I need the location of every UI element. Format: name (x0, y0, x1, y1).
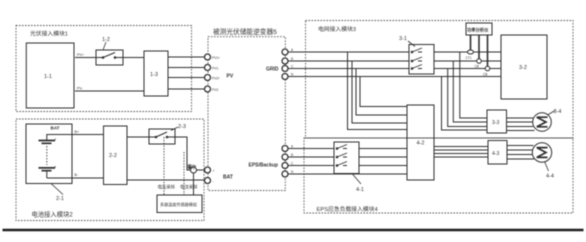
GRID terminal N label (291, 73, 294, 77)
EPS wire C to 4-1 (288, 165, 407, 167)
switch 4-1 (334, 142, 359, 174)
PV terminal 1 label (212, 56, 220, 60)
label BAT bold (223, 175, 233, 181)
wires 4-3 to motor 4-4 (507, 146, 534, 160)
box 3-3 (487, 110, 507, 133)
grid simulator box 3-2 (501, 35, 547, 99)
battery cell 2 (39, 168, 56, 178)
multi-channel temperature sensor module box (157, 195, 202, 213)
sensor module text (160, 201, 197, 207)
svg-text:1-3: 1-3 (150, 72, 158, 78)
svg-text:CB: CB (475, 65, 479, 69)
svg-text:C: C (291, 65, 294, 69)
module 2 label (32, 210, 74, 219)
voltage sampling dashed taps (164, 137, 184, 195)
taps from bus down to 3-3 (442, 52, 488, 130)
wire 1-2 to 1-3 (123, 57, 144, 59)
module 3 label (318, 25, 356, 33)
meter probe label A (466, 56, 472, 60)
svg-text:BAT: BAT (223, 175, 233, 181)
svg-text:霍尔: 霍尔 (188, 163, 197, 170)
svg-text:B+: B+ (75, 130, 80, 134)
label 4-1 with leader (352, 174, 361, 185)
label PV bold (227, 74, 234, 80)
label 电流采样 (180, 184, 198, 191)
label 1-3 (150, 72, 158, 78)
wires 4-2 to 4-3 (434, 147, 488, 158)
svg-text:4-1: 4-1 (356, 187, 364, 193)
grid bus wire A (288, 51, 501, 53)
label 2-2 (109, 153, 117, 159)
label PV- (77, 87, 84, 91)
svg-text:PV: PV (227, 74, 234, 80)
inverter dashed box 被测光伏储能逆变器5 (208, 37, 285, 191)
meter probe label C (483, 73, 487, 77)
switch 2-3 (149, 129, 175, 144)
svg-text:EPS应急负载接入模块4: EPS应急负载接入模块4 (317, 205, 379, 213)
EPS wire N (288, 173, 407, 175)
svg-text:4-4: 4-4 (546, 174, 554, 180)
EPS terminal B (282, 154, 288, 160)
label EPS/Backup (249, 163, 278, 169)
EPS terminal C label (291, 162, 294, 166)
hall sensor drop to sensor module (193, 173, 195, 195)
svg-text:3-2: 3-2 (519, 65, 527, 71)
label 3-1 with leader (408, 41, 415, 47)
svg-text:电网接入模块3: 电网接入模块3 (318, 25, 356, 33)
grid taps down to 4-2 (348, 52, 408, 130)
svg-text:2-3: 2-3 (178, 124, 186, 130)
label 电压采样 (158, 184, 176, 191)
svg-text:3-4: 3-4 (554, 109, 562, 115)
switch 1-2 (96, 50, 123, 65)
svg-text:B-: B- (75, 173, 79, 177)
grid bus wire B (288, 60, 501, 62)
svg-text:电流采样: 电流采样 (180, 184, 198, 191)
svg-text:A: A (291, 48, 294, 52)
wire 2-3 to BAT+ terminal (175, 137, 205, 170)
svg-text:+: + (213, 169, 215, 173)
GRID terminal B (282, 58, 288, 64)
hall sensor junction (191, 167, 197, 173)
motor load 3-4 (533, 113, 552, 132)
PV terminal 4 (205, 86, 211, 92)
svg-text:PV+: PV+ (77, 53, 84, 57)
svg-text:A: A (291, 145, 294, 149)
svg-text:C: C (291, 162, 294, 166)
hall sensor label (188, 163, 197, 170)
svg-text:2-2: 2-2 (109, 153, 117, 159)
label 4-4 with leader (545, 162, 549, 172)
battery cell 1 (39, 134, 56, 143)
module 3 dashed box 电网接入模块3 (306, 21, 574, 139)
svg-text:CB: CB (483, 73, 487, 77)
EPS terminal N label (291, 170, 294, 174)
label BAT (51, 126, 60, 131)
motor load 4-4 (532, 143, 551, 162)
EPS terminal A label (291, 145, 294, 149)
label 3-4 with leader (548, 111, 556, 116)
wires 1-3 to PV terminals (168, 57, 205, 89)
wires 3-3 to motor 3-4 (507, 118, 535, 131)
GRID terminal A (282, 49, 288, 55)
grid bus wire N (288, 76, 501, 78)
label 1-2 with leader (103, 42, 106, 50)
module 4 dashed box EPS应急负载接入模块4 (304, 138, 573, 213)
meter probe line C (485, 35, 490, 71)
svg-text:B: B (291, 153, 293, 157)
svg-text:功率分析仪: 功率分析仪 (467, 27, 489, 34)
svg-text:-: - (213, 180, 215, 184)
EPS terminal N (282, 171, 288, 177)
label PV+ (77, 53, 84, 57)
bottom page rule (3, 229, 584, 232)
svg-text:+: + (54, 165, 57, 170)
label 4-3 (492, 151, 499, 157)
box 1-3 (144, 51, 168, 96)
battery cell 1 plus mark (54, 137, 57, 142)
svg-text:4-3: 4-3 (492, 151, 499, 157)
dashed link between cells (46, 146, 48, 165)
grid bus wire C (288, 68, 501, 70)
module 1 dashed box 光伏接入模块1 (16, 26, 192, 112)
label GRID bold (266, 67, 279, 73)
GRID terminal C label (291, 65, 294, 69)
PV terminal 2 (205, 65, 211, 71)
wire PV- from 1-1 to 1-3 (75, 90, 144, 92)
svg-text:GRID: GRID (266, 67, 279, 73)
module 1 label (30, 30, 68, 38)
meter probe line A (468, 35, 474, 54)
svg-text:4-2: 4-2 (417, 141, 425, 147)
label 3-2 (519, 65, 527, 71)
svg-text:多路温度传感器模组: 多路温度传感器模组 (160, 201, 197, 207)
label 1-1 (44, 74, 52, 80)
BAT+ terminal (205, 167, 211, 173)
label B+ (75, 130, 80, 134)
svg-text:电压采样: 电压采样 (158, 184, 176, 191)
svg-text:电池接入模块2: 电池接入模块2 (32, 210, 74, 219)
label 2-1 with leader (51, 184, 63, 195)
BAT- terminal (205, 178, 211, 184)
EPS wire A to 4-1 (288, 148, 407, 150)
wire B- BAT to 2-2 (72, 177, 104, 179)
wire 2-2 to BAT- terminal (127, 179, 205, 181)
svg-text:PV2-: PV2- (212, 88, 219, 92)
wire B+ BAT to 2-2 (72, 134, 104, 136)
meter probe label B (475, 65, 479, 69)
BAT+ terminal label (213, 169, 215, 173)
svg-text:BAT: BAT (51, 126, 60, 131)
svg-text:CT1: CT1 (466, 56, 472, 60)
PV terminal 3 label (212, 77, 220, 81)
battery cell 2 plus mark (54, 165, 57, 170)
box 1-1 PV simulator (26, 43, 74, 108)
svg-text:1-1: 1-1 (44, 74, 52, 80)
svg-text:光伏接入模块1: 光伏接入模块1 (30, 30, 68, 38)
box 2-2 (104, 126, 128, 185)
svg-text:3-3: 3-3 (492, 120, 499, 126)
PV terminal 4 label (212, 88, 219, 92)
GRID terminal N (282, 74, 288, 80)
svg-text:B: B (291, 57, 293, 61)
module 4 label (317, 205, 379, 213)
GRID terminal B label (291, 57, 293, 61)
svg-text:PV2+: PV2+ (212, 77, 220, 81)
svg-text:PV-: PV- (77, 87, 84, 91)
EPS terminal A (282, 146, 288, 152)
svg-text:N: N (291, 73, 294, 77)
svg-text:1-2: 1-2 (102, 37, 110, 43)
power meter text (467, 27, 489, 34)
svg-text:EPS/Backup: EPS/Backup (249, 163, 278, 169)
EPS wire B to 4-1 (288, 156, 407, 158)
inverter label (213, 27, 277, 36)
meter probe line B (477, 35, 482, 63)
module 2 dashed box 电池接入模块2 (16, 119, 204, 221)
svg-text:PV1-: PV1- (212, 67, 219, 71)
transfer switch box 4-2 (407, 105, 434, 180)
svg-text:3-1: 3-1 (399, 36, 407, 42)
PV terminal 3 (205, 75, 211, 81)
battery box BAT 2-1 (26, 124, 72, 184)
label 2-3 with leader (171, 127, 178, 131)
GRID terminal C (282, 66, 288, 72)
PV terminal 2 label (212, 67, 219, 71)
internal wires to box edge (47, 135, 72, 179)
wire 2-2 to 2-3 (127, 136, 149, 138)
EPS terminal B label (291, 153, 293, 157)
label B- (75, 173, 79, 177)
svg-text:+: + (54, 137, 57, 142)
wire PV+ from 1-1 to 1-2 (75, 57, 96, 59)
EPS terminal C (282, 163, 288, 169)
svg-text:N: N (291, 170, 294, 174)
PV terminal 1 (205, 54, 211, 60)
svg-text:2-1: 2-1 (56, 196, 64, 202)
BAT- terminal label (213, 180, 215, 184)
GRID terminal A label (291, 48, 294, 52)
svg-text:被测光伏储能逆变器5: 被测光伏储能逆变器5 (213, 27, 277, 36)
label 3-3 (492, 120, 499, 126)
switch 3-1 (409, 45, 434, 75)
label 4-2 (417, 141, 425, 147)
power meter box (466, 23, 492, 35)
svg-text:PV1+: PV1+ (212, 56, 220, 60)
box 4-3 (488, 141, 507, 165)
